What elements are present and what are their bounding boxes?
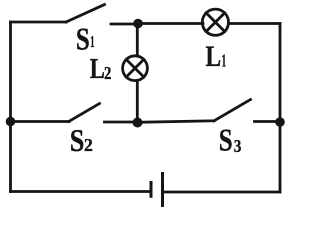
wire: S2 right contact to node: [105, 121, 138, 124]
wire: middle rail left segment: [11, 120, 70, 123]
svg-text:2: 2: [104, 63, 111, 84]
junction node: middle rail / L2: [133, 118, 143, 128]
label S1: [76, 22, 95, 58]
wire: top rail right segment: [229, 22, 281, 25]
switch S1 blade: [66, 5, 105, 23]
svg-text:S: S: [76, 22, 90, 58]
lamp L2: [123, 56, 148, 81]
wire: lamp L2 upper lead: [136, 24, 139, 57]
wire: top rail node to lamp L1: [138, 22, 203, 25]
svg-text:L: L: [90, 52, 105, 84]
svg-text:1: 1: [90, 32, 94, 51]
svg-text:S: S: [70, 123, 85, 158]
label L2 (lamp L2 value label): [90, 52, 112, 84]
switch S3 blade: [214, 100, 251, 121]
svg-text:L: L: [206, 39, 222, 72]
junction node: middle rail / right rail: [275, 117, 285, 127]
wire: middle rail node to S3: [138, 121, 215, 123]
svg-text:S: S: [219, 123, 233, 159]
switch S2 blade: [69, 104, 100, 122]
wire: bottom rail left segment: [11, 190, 152, 193]
label S3: [219, 123, 242, 159]
wire: left vertical rail: [9, 22, 12, 192]
wire: bottom rail right segment: [163, 191, 281, 194]
svg-text:3: 3: [234, 136, 242, 156]
junction node: left rail / middle rail: [6, 117, 16, 127]
label S2: [70, 123, 93, 158]
wire: lamp L2 lower lead: [136, 81, 139, 123]
label L1 (lamp L1 value label): [206, 39, 227, 72]
battery B1: [151, 172, 163, 207]
lamp L1: [202, 9, 228, 35]
wire: top rail left segment: [11, 21, 67, 24]
wire: S3 right contact to right rail: [255, 120, 281, 123]
wire: S1 right contact to node: [111, 23, 138, 26]
junction node: top rail / L2: [133, 19, 143, 29]
svg-text:2: 2: [84, 135, 93, 155]
wire: right vertical rail: [279, 24, 282, 193]
svg-text:1: 1: [222, 51, 226, 71]
